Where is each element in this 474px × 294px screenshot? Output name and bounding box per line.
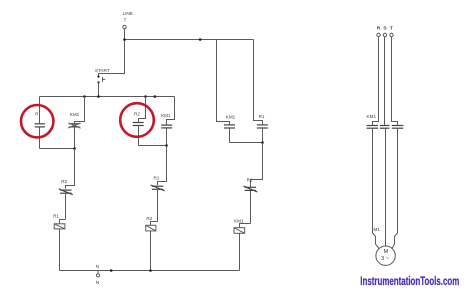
contactor KM1 pole 2 [380, 126, 390, 129]
wire branch2 bottom tie [139, 145, 167, 147]
terminal N [96, 274, 99, 277]
wire branch1 bottom tie [40, 148, 75, 150]
junction top rail left [123, 38, 126, 41]
annotation red circle 1 [21, 105, 53, 137]
pushbutton START [97, 74, 105, 97]
svg-text:KM1: KM1 [367, 114, 377, 119]
contact R1 NC branch2 [151, 185, 165, 222]
junction branch3 tie [261, 141, 264, 144]
wire branch3 bottom tie [230, 142, 263, 144]
junction rail2 START [97, 95, 100, 98]
contact R2 NC branch1 [59, 189, 73, 220]
junction branch1 tie [73, 147, 76, 150]
annotation red circle 2 [120, 103, 154, 137]
wire branch3 drop [251, 143, 263, 187]
svg-text:R1: R1 [153, 176, 159, 181]
svg-text:KM1: KM1 [161, 113, 171, 118]
wire branch1 drop [66, 149, 75, 189]
contact R2 NO branch2 [133, 97, 146, 146]
svg-text:T: T [390, 25, 393, 31]
wire motor lead 2 [385, 129, 387, 246]
junction rail2 c [154, 95, 157, 98]
terminal S [383, 33, 386, 36]
wire phase S [384, 37, 386, 125]
contact R NO branch1 [35, 97, 45, 149]
contact R2 NC branch3 [243, 186, 257, 223]
wire bottom rail [60, 270, 240, 272]
svg-text:R2: R2 [134, 112, 140, 117]
svg-text:M1: M1 [374, 227, 381, 232]
wire second rail [40, 96, 175, 98]
svg-text:KM1: KM1 [70, 112, 80, 117]
wire branch3 feed KM1 [217, 40, 230, 125]
svg-text:START: START [95, 68, 110, 73]
svg-text:R2: R2 [247, 178, 253, 183]
wire to coil R2 [151, 222, 158, 226]
wire N tap [97, 271, 99, 274]
svg-text:InstrumentationTools.com: InstrumentationTools.com [360, 276, 459, 288]
wire branch3 feed R1 [254, 40, 263, 125]
wire to coil R1 [60, 220, 66, 224]
terminal LINE T [123, 25, 126, 28]
svg-text:KM1: KM1 [226, 114, 236, 119]
svg-text:T: T [124, 17, 127, 22]
terminal R [377, 33, 380, 36]
wire top rail [125, 39, 254, 41]
coil R1 [54, 224, 65, 271]
wire phase T [392, 37, 398, 125]
svg-text:R2: R2 [61, 179, 67, 184]
svg-text:M: M [384, 249, 389, 255]
svg-text:R2: R2 [146, 216, 152, 221]
contactor KM1 pole 1 [367, 126, 379, 129]
junction branch2 tie [165, 144, 168, 147]
contact KM1 NO branch3 [224, 125, 235, 143]
junction bottom rail a [110, 269, 113, 272]
svg-text:N: N [96, 280, 100, 286]
svg-text:N: N [96, 264, 99, 269]
wire motor lead 1 [373, 129, 380, 249]
coil R2 [146, 225, 156, 270]
svg-text:LINE: LINE [123, 11, 133, 16]
svg-text:R: R [377, 25, 381, 31]
coil KM1 [234, 228, 245, 271]
wire motor lead 3 [392, 129, 397, 249]
contact R1 NO branch3 [257, 125, 268, 143]
junction top rail mid [199, 38, 202, 41]
junction rail2 a [83, 95, 86, 98]
wire to coil KM1 [240, 224, 251, 228]
junction rail2 b [144, 95, 147, 98]
wire LINE drop [99, 29, 125, 74]
contact KM1 NC branch1 [68, 97, 84, 149]
svg-text:3 ~: 3 ~ [381, 256, 389, 262]
junction bottom rail b [149, 269, 152, 272]
wire branch2 drop [158, 146, 167, 186]
svg-text:R1: R1 [259, 114, 265, 119]
contact KM1 NO branch2 [161, 97, 174, 146]
wire phase R [373, 37, 379, 125]
contactor KM1 pole 3 [392, 126, 404, 129]
motor M1 [376, 246, 395, 265]
svg-text:R1: R1 [53, 214, 59, 219]
terminal T [390, 33, 393, 36]
svg-text:KM1: KM1 [234, 219, 244, 224]
